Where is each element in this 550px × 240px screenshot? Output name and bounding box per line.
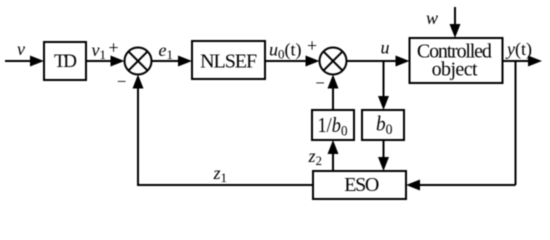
svg-text:+: + [307,36,317,56]
svg-text:−: − [315,74,325,93]
svg-text:+: + [109,38,119,58]
svg-text:NLSEF: NLSEF [200,51,257,73]
svg-text:z1: z1 [213,163,228,185]
svg-text:1/b0: 1/b0 [318,113,348,140]
svg-text:−: − [117,72,127,91]
svg-text:u: u [381,38,390,58]
svg-text:TD: TD [54,51,77,72]
svg-text:y(t): y(t) [505,39,532,60]
svg-text:w: w [426,8,438,28]
svg-text:z2: z2 [308,146,323,168]
svg-text:ESO: ESO [344,174,379,196]
svg-text:v: v [17,39,25,59]
svg-text:e1: e1 [159,40,174,62]
svg-text:object: object [432,59,478,81]
svg-text:v1: v1 [92,40,107,62]
svg-text:b0: b0 [376,112,393,139]
svg-text:u0(t): u0(t) [269,40,302,62]
